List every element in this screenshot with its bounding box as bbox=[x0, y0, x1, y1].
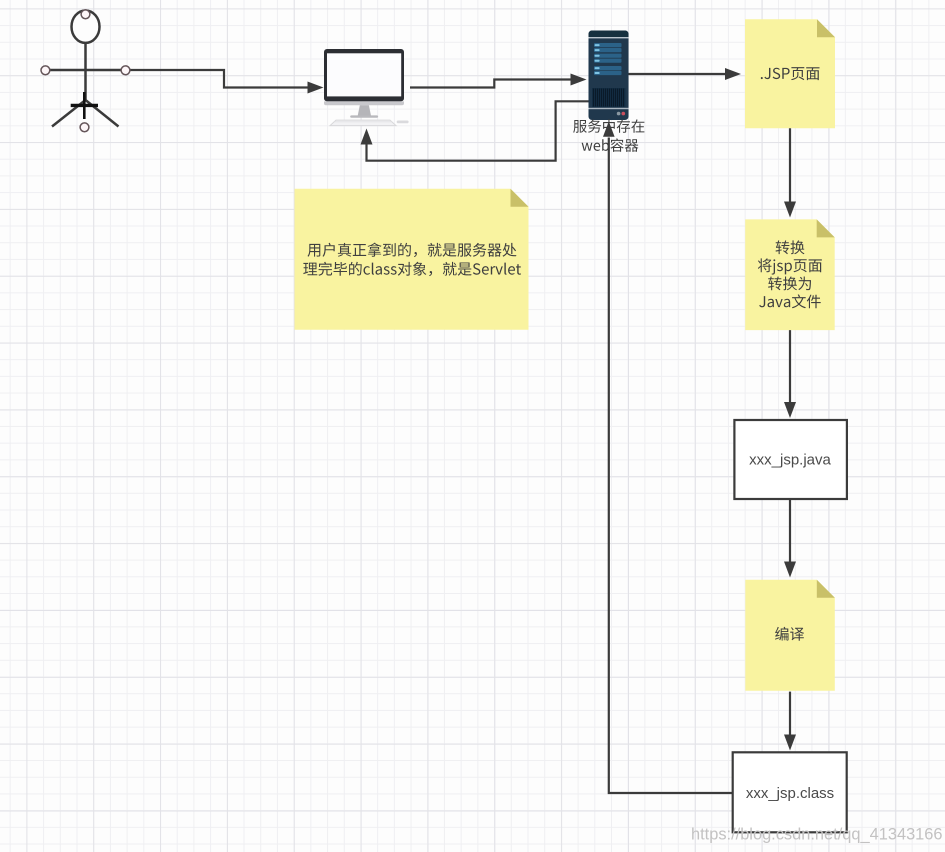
wire server back to monitor bbox=[361, 101, 589, 160]
box xxx_jsp.class bbox=[733, 752, 847, 832]
port marker below actor bbox=[80, 123, 89, 132]
wire actor to monitor bbox=[131, 70, 324, 94]
wire xxx_jsp.class back to server bbox=[603, 121, 733, 793]
label 服务中存在 bbox=[573, 119, 644, 132]
actor (user) bbox=[45, 11, 126, 127]
note JSP页面 bbox=[745, 19, 835, 128]
wire monitor to server bbox=[410, 74, 587, 88]
wire JSP note to 转换 note bbox=[784, 128, 796, 217]
wire 转换 note to xxx_jsp.java bbox=[784, 330, 796, 418]
server tower (web container) bbox=[589, 31, 629, 121]
port marker top of actor bbox=[81, 10, 90, 19]
crosshair cursor at actor feet bbox=[71, 92, 98, 119]
svg-text:xxx_jsp.class: xxx_jsp.class bbox=[746, 785, 834, 802]
svg-text:https://blog.csdn.net/qq_41343: https://blog.csdn.net/qq_41343166 bbox=[691, 826, 943, 844]
port marker left hand bbox=[41, 66, 50, 75]
svg-text:xxx_jsp.java: xxx_jsp.java bbox=[749, 452, 831, 469]
note 用户真正拿到的，就是服务器处理完毕的class对象，就是Servlet bbox=[295, 189, 529, 330]
note 编译 bbox=[745, 580, 835, 691]
monitor (client computer) bbox=[324, 49, 409, 126]
box xxx_jsp.java bbox=[734, 420, 847, 499]
note 转换/将jsp页面/转换为/Java文件 bbox=[745, 219, 835, 330]
wire xxx_jsp.java to 编译 note bbox=[784, 499, 796, 577]
wire 编译 note to xxx_jsp.class bbox=[784, 692, 796, 751]
label web容器 bbox=[582, 138, 639, 152]
port marker right hand bbox=[121, 66, 130, 75]
wire server to JSP note bbox=[629, 68, 742, 80]
